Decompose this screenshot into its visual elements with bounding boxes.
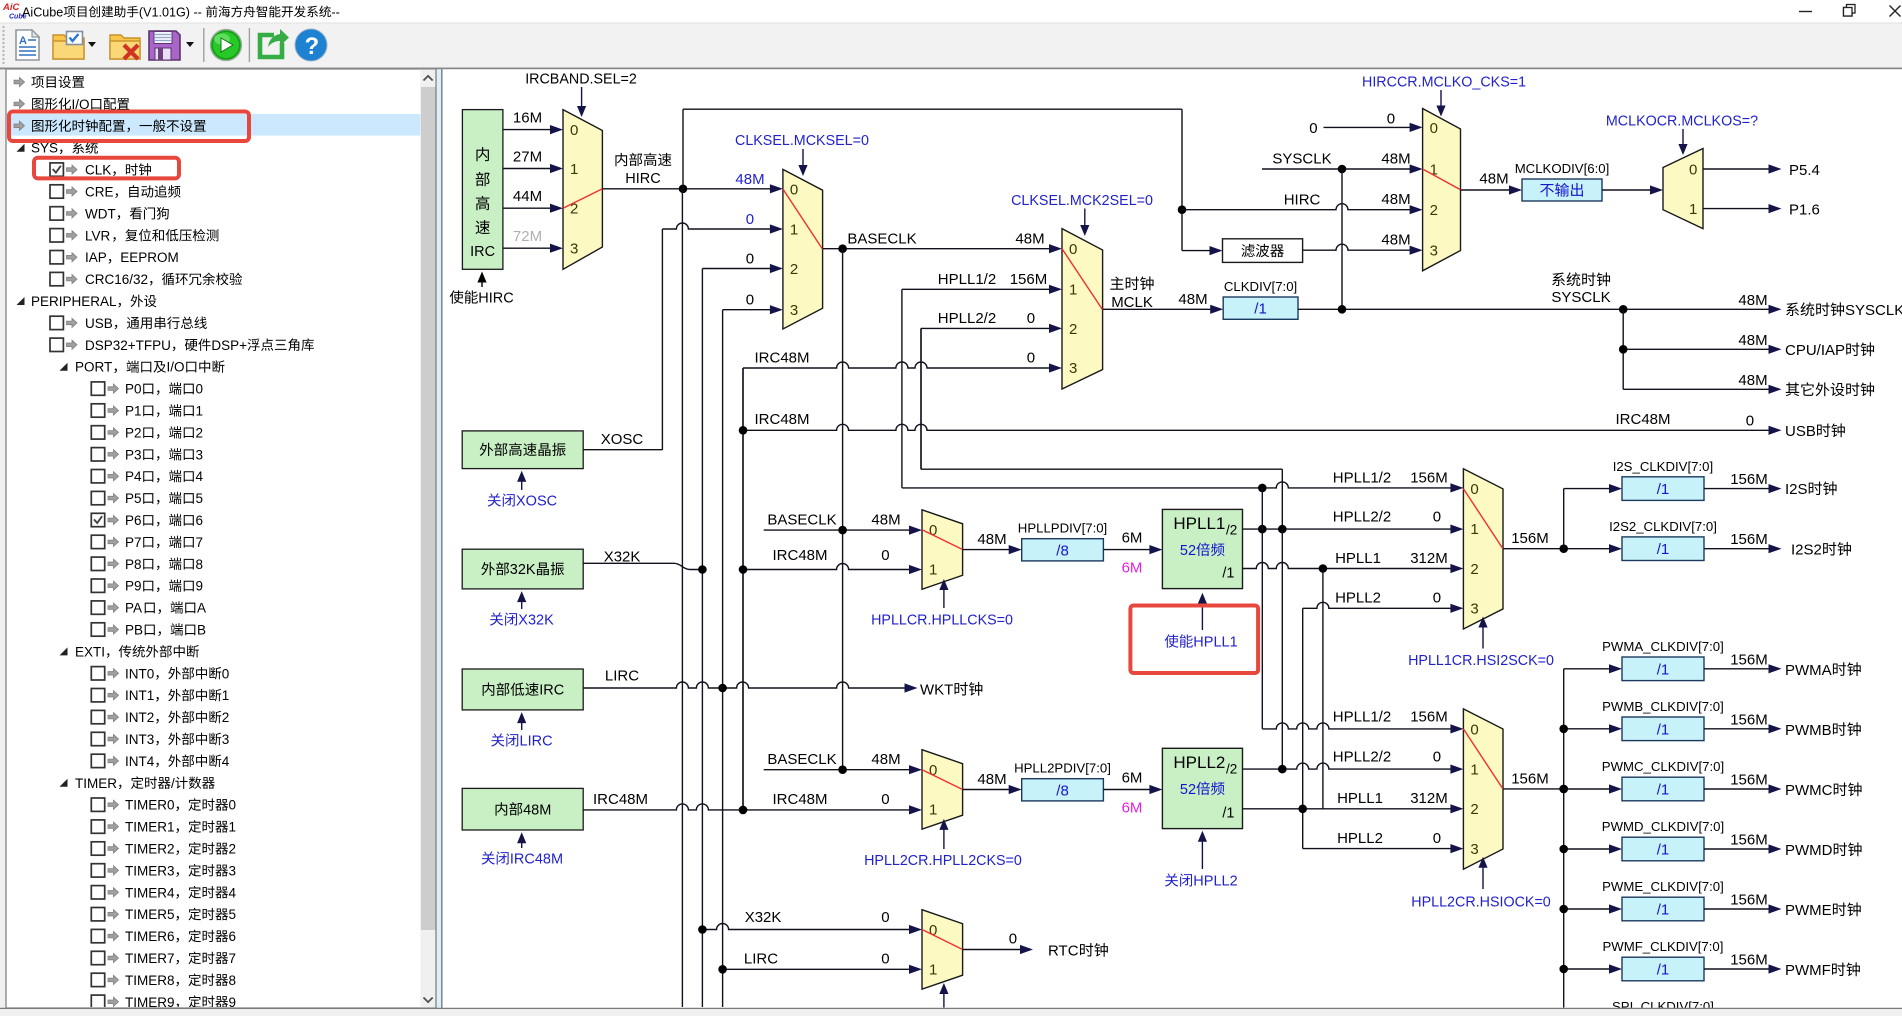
svg-text:CLKSEL.MCK2SEL=0: CLKSEL.MCK2SEL=0 xyxy=(1011,193,1153,209)
svg-text:P7: P7 xyxy=(125,535,142,550)
svg-text:B: B xyxy=(197,623,206,638)
svg-text:0: 0 xyxy=(1387,111,1395,128)
svg-text:P6: P6 xyxy=(125,513,142,528)
svg-text:48M: 48M xyxy=(977,531,1006,548)
svg-text:48M: 48M xyxy=(1738,332,1767,349)
svg-text:P9: P9 xyxy=(125,579,142,594)
svg-text:0: 0 xyxy=(746,211,754,228)
svg-text:PERIPHERAL: PERIPHERAL xyxy=(31,294,117,309)
svg-text:HPLL2: HPLL2 xyxy=(1173,753,1225,772)
svg-text:--: -- xyxy=(331,5,339,19)
svg-text:1: 1 xyxy=(1069,282,1077,299)
svg-text:156M: 156M xyxy=(1511,771,1549,788)
svg-text:X32K: X32K xyxy=(604,549,641,566)
svg-text:HPLL2/2: HPLL2/2 xyxy=(1333,509,1391,526)
svg-text:USB: USB xyxy=(1785,423,1816,440)
svg-text:IRC48M: IRC48M xyxy=(510,852,563,868)
svg-text:SYSCLK: SYSCLK xyxy=(1845,302,1902,319)
svg-text:I2S_CLKDIV[7:0]: I2S_CLKDIV[7:0] xyxy=(1613,459,1713,474)
svg-text:52: 52 xyxy=(1180,782,1196,798)
svg-text:4: 4 xyxy=(229,885,237,900)
svg-text:1: 1 xyxy=(1470,521,1478,538)
svg-text:2: 2 xyxy=(229,842,237,857)
svg-text:44M: 44M xyxy=(513,188,542,205)
svg-text:0: 0 xyxy=(1027,310,1035,327)
svg-text:PB: PB xyxy=(125,623,143,638)
svg-text:0: 0 xyxy=(881,951,889,968)
svg-text:0: 0 xyxy=(1309,120,1317,137)
svg-text:0: 0 xyxy=(196,382,204,397)
svg-text:0: 0 xyxy=(222,666,230,681)
svg-text:156M: 156M xyxy=(1730,651,1768,668)
svg-text:/2: /2 xyxy=(1226,761,1237,776)
svg-text:CLKDIV[7:0]: CLKDIV[7:0] xyxy=(1224,279,1297,294)
svg-text:INT0: INT0 xyxy=(125,666,154,681)
svg-text:PWMC_CLKDIV[7:0]: PWMC_CLKDIV[7:0] xyxy=(1602,759,1724,774)
svg-text:156M: 156M xyxy=(1410,709,1448,726)
svg-text:0: 0 xyxy=(1433,509,1441,526)
svg-text:TIMER3: TIMER3 xyxy=(125,863,175,878)
svg-text:IRC48M: IRC48M xyxy=(773,547,828,564)
svg-text:/1: /1 xyxy=(1657,962,1670,979)
svg-text:HPLL2CR.HPLL2CKS=0: HPLL2CR.HPLL2CKS=0 xyxy=(864,853,1022,869)
svg-text:156M: 156M xyxy=(1730,892,1768,909)
svg-text:1: 1 xyxy=(229,820,237,835)
svg-text:TIMER0: TIMER0 xyxy=(125,798,175,813)
svg-text:PWMC: PWMC xyxy=(1785,782,1833,799)
svg-text:EEPROM: EEPROM xyxy=(120,250,179,265)
svg-text:CLKSEL.MCKSEL=0: CLKSEL.MCKSEL=0 xyxy=(735,133,869,149)
svg-text:PWMA: PWMA xyxy=(1785,662,1832,679)
svg-text:SYSCLK: SYSCLK xyxy=(1272,151,1331,168)
svg-text:0: 0 xyxy=(881,547,889,564)
svg-text:A: A xyxy=(197,601,206,616)
svg-text:52: 52 xyxy=(1180,543,1196,559)
svg-text:LVR: LVR xyxy=(85,228,111,243)
svg-text:P0: P0 xyxy=(125,382,142,397)
svg-text:16M: 16M xyxy=(513,110,542,127)
svg-text:LIRC: LIRC xyxy=(605,668,639,685)
svg-text:AiCube: AiCube xyxy=(22,5,63,19)
svg-text:0: 0 xyxy=(1746,413,1754,430)
svg-text:312M: 312M xyxy=(1410,550,1448,567)
svg-text:HPLL1/2: HPLL1/2 xyxy=(1333,470,1391,487)
svg-text:XOSC: XOSC xyxy=(601,431,644,448)
svg-text:1: 1 xyxy=(790,221,798,238)
svg-text:BASECLK: BASECLK xyxy=(847,231,916,248)
svg-text:156M: 156M xyxy=(1730,772,1768,789)
svg-text:HIRC: HIRC xyxy=(478,291,513,307)
svg-text:CRC16/32: CRC16/32 xyxy=(85,272,148,287)
svg-text:?: ? xyxy=(305,33,320,60)
svg-text:2: 2 xyxy=(1470,801,1478,818)
svg-text:156M: 156M xyxy=(1730,471,1768,488)
svg-text:2: 2 xyxy=(1430,202,1438,219)
svg-text:MCLKOCR.MCLKOS=?: MCLKOCR.MCLKOS=? xyxy=(1606,114,1758,130)
svg-text:/8: /8 xyxy=(1056,782,1069,799)
svg-text:I/O: I/O xyxy=(167,360,185,375)
svg-text:/8: /8 xyxy=(1056,542,1069,559)
svg-text:156M: 156M xyxy=(1730,711,1768,728)
svg-text:3: 3 xyxy=(222,732,230,747)
svg-text:IRC: IRC xyxy=(539,683,564,699)
svg-text:/1: /1 xyxy=(1657,721,1670,738)
svg-text:AiC: AiC xyxy=(2,2,20,13)
svg-text:48M: 48M xyxy=(1479,171,1508,188)
svg-text:0: 0 xyxy=(746,292,754,309)
svg-text:2: 2 xyxy=(790,261,798,278)
svg-text:1: 1 xyxy=(1689,201,1697,218)
svg-text:6: 6 xyxy=(196,513,204,528)
svg-text:RTC: RTC xyxy=(1048,943,1079,960)
svg-text:TIMER2: TIMER2 xyxy=(125,842,175,857)
svg-text:48M: 48M xyxy=(735,171,764,188)
svg-text:TIMER5: TIMER5 xyxy=(125,907,175,922)
svg-text:6: 6 xyxy=(229,929,237,944)
svg-text:EXTI: EXTI xyxy=(75,644,105,659)
svg-text:7: 7 xyxy=(196,535,204,550)
svg-text:P2: P2 xyxy=(125,425,142,440)
svg-text:BASECLK: BASECLK xyxy=(767,751,836,768)
svg-text:3: 3 xyxy=(790,302,798,319)
svg-text:0: 0 xyxy=(1470,481,1478,498)
svg-text:48M: 48M xyxy=(1381,191,1410,208)
svg-text:156M: 156M xyxy=(1511,530,1549,547)
svg-text:48M: 48M xyxy=(523,802,551,818)
svg-text:4: 4 xyxy=(196,469,204,484)
svg-text:I2S2_CLKDIV[7:0]: I2S2_CLKDIV[7:0] xyxy=(1609,519,1717,534)
svg-text:MCLKODIV[6:0]: MCLKODIV[6:0] xyxy=(1515,161,1610,176)
svg-text:PORT: PORT xyxy=(75,360,112,375)
svg-text:P1: P1 xyxy=(125,404,142,419)
svg-text:3: 3 xyxy=(229,863,237,878)
svg-text:1: 1 xyxy=(196,404,204,419)
svg-text:IRC48M: IRC48M xyxy=(593,791,648,808)
svg-text:27M: 27M xyxy=(513,149,542,166)
svg-text:LIRC: LIRC xyxy=(744,951,778,968)
svg-text:0: 0 xyxy=(1430,120,1438,137)
svg-text:48M: 48M xyxy=(1015,231,1044,248)
svg-text:48M: 48M xyxy=(871,751,900,768)
svg-text:2: 2 xyxy=(1470,561,1478,578)
svg-text:3: 3 xyxy=(1470,601,1478,618)
svg-text:X32K: X32K xyxy=(518,613,554,629)
svg-text:156M: 156M xyxy=(1730,952,1768,969)
svg-text:X32K: X32K xyxy=(745,909,782,926)
svg-text:HPLL1: HPLL1 xyxy=(1173,514,1225,533)
svg-text:P4: P4 xyxy=(125,469,142,484)
svg-text:156M: 156M xyxy=(1410,470,1448,487)
svg-text:156M: 156M xyxy=(1730,531,1768,548)
svg-text:P8: P8 xyxy=(125,557,142,572)
svg-text:PWMD: PWMD xyxy=(1785,842,1833,859)
svg-text:3: 3 xyxy=(1069,360,1077,377)
svg-text:1: 1 xyxy=(1470,761,1478,778)
svg-text:72M: 72M xyxy=(513,228,542,245)
svg-text:PWMF_CLKDIV[7:0]: PWMF_CLKDIV[7:0] xyxy=(1603,939,1724,954)
svg-text:IRC48M: IRC48M xyxy=(773,791,828,808)
svg-text:1: 1 xyxy=(929,562,937,579)
svg-text:PWME: PWME xyxy=(1785,902,1832,919)
svg-text:2: 2 xyxy=(196,425,204,440)
svg-text:P3: P3 xyxy=(125,447,142,462)
svg-text:/1: /1 xyxy=(1222,806,1234,822)
svg-text:IRC48M: IRC48M xyxy=(1616,411,1671,428)
svg-text:INT3: INT3 xyxy=(125,732,154,747)
svg-text:0: 0 xyxy=(1027,350,1035,367)
svg-text:IRC48M: IRC48M xyxy=(755,350,810,367)
svg-text:2: 2 xyxy=(1069,321,1077,338)
svg-text:TIMER4: TIMER4 xyxy=(125,885,175,900)
svg-text:/1: /1 xyxy=(1657,541,1670,558)
svg-text:8: 8 xyxy=(196,557,204,572)
svg-text:SYSCLK: SYSCLK xyxy=(1551,289,1610,306)
svg-text:48M: 48M xyxy=(1738,372,1767,389)
svg-text:0: 0 xyxy=(881,791,889,808)
svg-text:I2S: I2S xyxy=(1785,481,1808,498)
svg-text:TIMER6: TIMER6 xyxy=(125,929,175,944)
svg-text:PA: PA xyxy=(125,601,142,616)
svg-text:DSP32+TFPU: DSP32+TFPU xyxy=(85,338,171,353)
svg-text:HPLL1CR.HSI2SCK=0: HPLL1CR.HSI2SCK=0 xyxy=(1408,653,1554,669)
svg-text:1: 1 xyxy=(929,802,937,819)
svg-text:HPLLPDIV[7:0]: HPLLPDIV[7:0] xyxy=(1018,521,1107,536)
svg-text:INT2: INT2 xyxy=(125,710,154,725)
svg-text:INT4: INT4 xyxy=(125,754,155,769)
svg-text:WDT: WDT xyxy=(85,206,116,221)
svg-text:/1: /1 xyxy=(1657,782,1670,799)
svg-text:0: 0 xyxy=(881,909,889,926)
svg-text:IRCBAND.SEL=2: IRCBAND.SEL=2 xyxy=(525,72,637,88)
svg-text:CLK: CLK xyxy=(85,163,111,178)
svg-text:HPLLCR.HPLLCKS=0: HPLLCR.HPLLCKS=0 xyxy=(871,613,1013,629)
svg-text:USB: USB xyxy=(85,316,113,331)
svg-text:0: 0 xyxy=(229,798,237,813)
svg-text:3: 3 xyxy=(1430,243,1438,260)
svg-text:/: / xyxy=(171,776,175,791)
svg-text:TIMER8: TIMER8 xyxy=(125,973,175,988)
svg-text:CPU/IAP: CPU/IAP xyxy=(1785,342,1845,359)
svg-text:32K: 32K xyxy=(510,562,536,578)
svg-text:48M: 48M xyxy=(977,771,1006,788)
svg-text:5: 5 xyxy=(196,491,204,506)
svg-text:3: 3 xyxy=(1470,841,1478,858)
svg-text:WKT: WKT xyxy=(920,682,953,699)
svg-text:I2S2: I2S2 xyxy=(1791,542,1822,559)
svg-text:P5: P5 xyxy=(125,491,142,506)
svg-text:/1: /1 xyxy=(1657,661,1670,678)
svg-text:7: 7 xyxy=(229,951,237,966)
svg-text:HPLL2: HPLL2 xyxy=(1337,830,1383,847)
svg-text:LIRC: LIRC xyxy=(520,734,553,750)
svg-text:PWMA_CLKDIV[7:0]: PWMA_CLKDIV[7:0] xyxy=(1602,639,1724,654)
svg-text:IAP: IAP xyxy=(85,250,107,265)
svg-text:48M: 48M xyxy=(1381,232,1410,249)
svg-text:HPLL2PDIV[7:0]: HPLL2PDIV[7:0] xyxy=(1014,761,1111,776)
svg-text:9: 9 xyxy=(196,579,204,594)
svg-text:HPLL1: HPLL1 xyxy=(1335,550,1381,567)
svg-text:HPLL1/2: HPLL1/2 xyxy=(1333,709,1391,726)
svg-text:/1: /1 xyxy=(1657,842,1670,859)
svg-text:DSP+: DSP+ xyxy=(211,338,247,353)
svg-text:0: 0 xyxy=(746,251,754,268)
svg-text:48M: 48M xyxy=(1738,292,1767,309)
svg-text:0: 0 xyxy=(1433,830,1441,847)
svg-text:XOSC: XOSC xyxy=(516,494,557,510)
svg-text:HPLL2/2: HPLL2/2 xyxy=(938,310,996,327)
svg-text:1: 1 xyxy=(929,962,937,979)
svg-text:HPLL2/2: HPLL2/2 xyxy=(1333,749,1391,766)
svg-text:0: 0 xyxy=(1433,590,1441,607)
svg-text:HPLL1: HPLL1 xyxy=(1193,635,1237,651)
svg-text:0: 0 xyxy=(1433,749,1441,766)
svg-text:HPLL1: HPLL1 xyxy=(1337,790,1383,807)
svg-text:5: 5 xyxy=(229,907,237,922)
svg-text:PWME_CLKDIV[7:0]: PWME_CLKDIV[7:0] xyxy=(1602,879,1724,894)
svg-text:HPLL1/2: HPLL1/2 xyxy=(938,271,996,288)
svg-text:1: 1 xyxy=(222,688,230,703)
svg-text:156M: 156M xyxy=(1010,271,1048,288)
svg-text:BASECLK: BASECLK xyxy=(767,512,836,529)
svg-text:48M: 48M xyxy=(1178,291,1207,308)
svg-text:TIMER: TIMER xyxy=(75,776,117,791)
svg-text:/1: /1 xyxy=(1657,481,1670,498)
svg-text:HIRCCR.MCLKO_CKS=1: HIRCCR.MCLKO_CKS=1 xyxy=(1362,75,1526,91)
svg-text:PWMB: PWMB xyxy=(1785,722,1832,739)
svg-text:3: 3 xyxy=(196,447,204,462)
svg-text:156M: 156M xyxy=(1730,832,1768,849)
svg-text:HPLL2CR.HSIOCK=0: HPLL2CR.HSIOCK=0 xyxy=(1411,895,1550,911)
svg-text:IRC: IRC xyxy=(470,244,495,260)
svg-text:TIMER1: TIMER1 xyxy=(125,820,175,835)
svg-text:PWMD_CLKDIV[7:0]: PWMD_CLKDIV[7:0] xyxy=(1602,819,1724,834)
svg-text:/1: /1 xyxy=(1254,301,1267,318)
svg-text:4: 4 xyxy=(222,754,230,769)
svg-text:0: 0 xyxy=(1009,931,1017,948)
svg-text:6M: 6M xyxy=(1122,770,1143,787)
svg-text:312M: 312M xyxy=(1410,790,1448,807)
svg-text:2: 2 xyxy=(222,710,230,725)
svg-text:0: 0 xyxy=(1470,721,1478,738)
svg-text:1: 1 xyxy=(570,161,578,178)
svg-text:IRC48M: IRC48M xyxy=(755,411,810,428)
svg-text:P5.4: P5.4 xyxy=(1789,162,1820,179)
svg-text:HIRC: HIRC xyxy=(1284,192,1321,209)
svg-text:8: 8 xyxy=(229,973,237,988)
svg-text:INT1: INT1 xyxy=(125,688,154,703)
svg-text:6M: 6M xyxy=(1122,560,1143,577)
svg-text:0: 0 xyxy=(790,181,798,198)
svg-text:3: 3 xyxy=(570,241,578,258)
svg-text:A: A xyxy=(19,35,27,47)
svg-text:0: 0 xyxy=(570,122,578,139)
svg-text:/1: /1 xyxy=(1222,566,1234,582)
svg-text:HPLL2: HPLL2 xyxy=(1335,590,1381,607)
svg-text:MCLK: MCLK xyxy=(1111,294,1153,311)
svg-text:6M: 6M xyxy=(1122,530,1143,547)
svg-text:6M: 6M xyxy=(1122,800,1143,817)
svg-text:48M: 48M xyxy=(871,512,900,529)
svg-text:/2: /2 xyxy=(1226,522,1237,537)
svg-text:0: 0 xyxy=(1689,161,1697,178)
svg-text:PWMB_CLKDIV[7:0]: PWMB_CLKDIV[7:0] xyxy=(1602,699,1724,714)
svg-text:/1: /1 xyxy=(1657,902,1670,919)
svg-text:48M: 48M xyxy=(1381,151,1410,168)
svg-text:HPLL2: HPLL2 xyxy=(1193,874,1237,890)
svg-text:TIMER7: TIMER7 xyxy=(125,951,175,966)
svg-text:0: 0 xyxy=(1069,241,1077,258)
svg-text:P1.6: P1.6 xyxy=(1789,202,1820,219)
svg-text:PWMF: PWMF xyxy=(1785,962,1831,979)
svg-text:(V1.01G) --: (V1.01G) -- xyxy=(139,5,202,19)
svg-text:CRE: CRE xyxy=(85,185,114,200)
svg-text:HIRC: HIRC xyxy=(625,171,660,187)
